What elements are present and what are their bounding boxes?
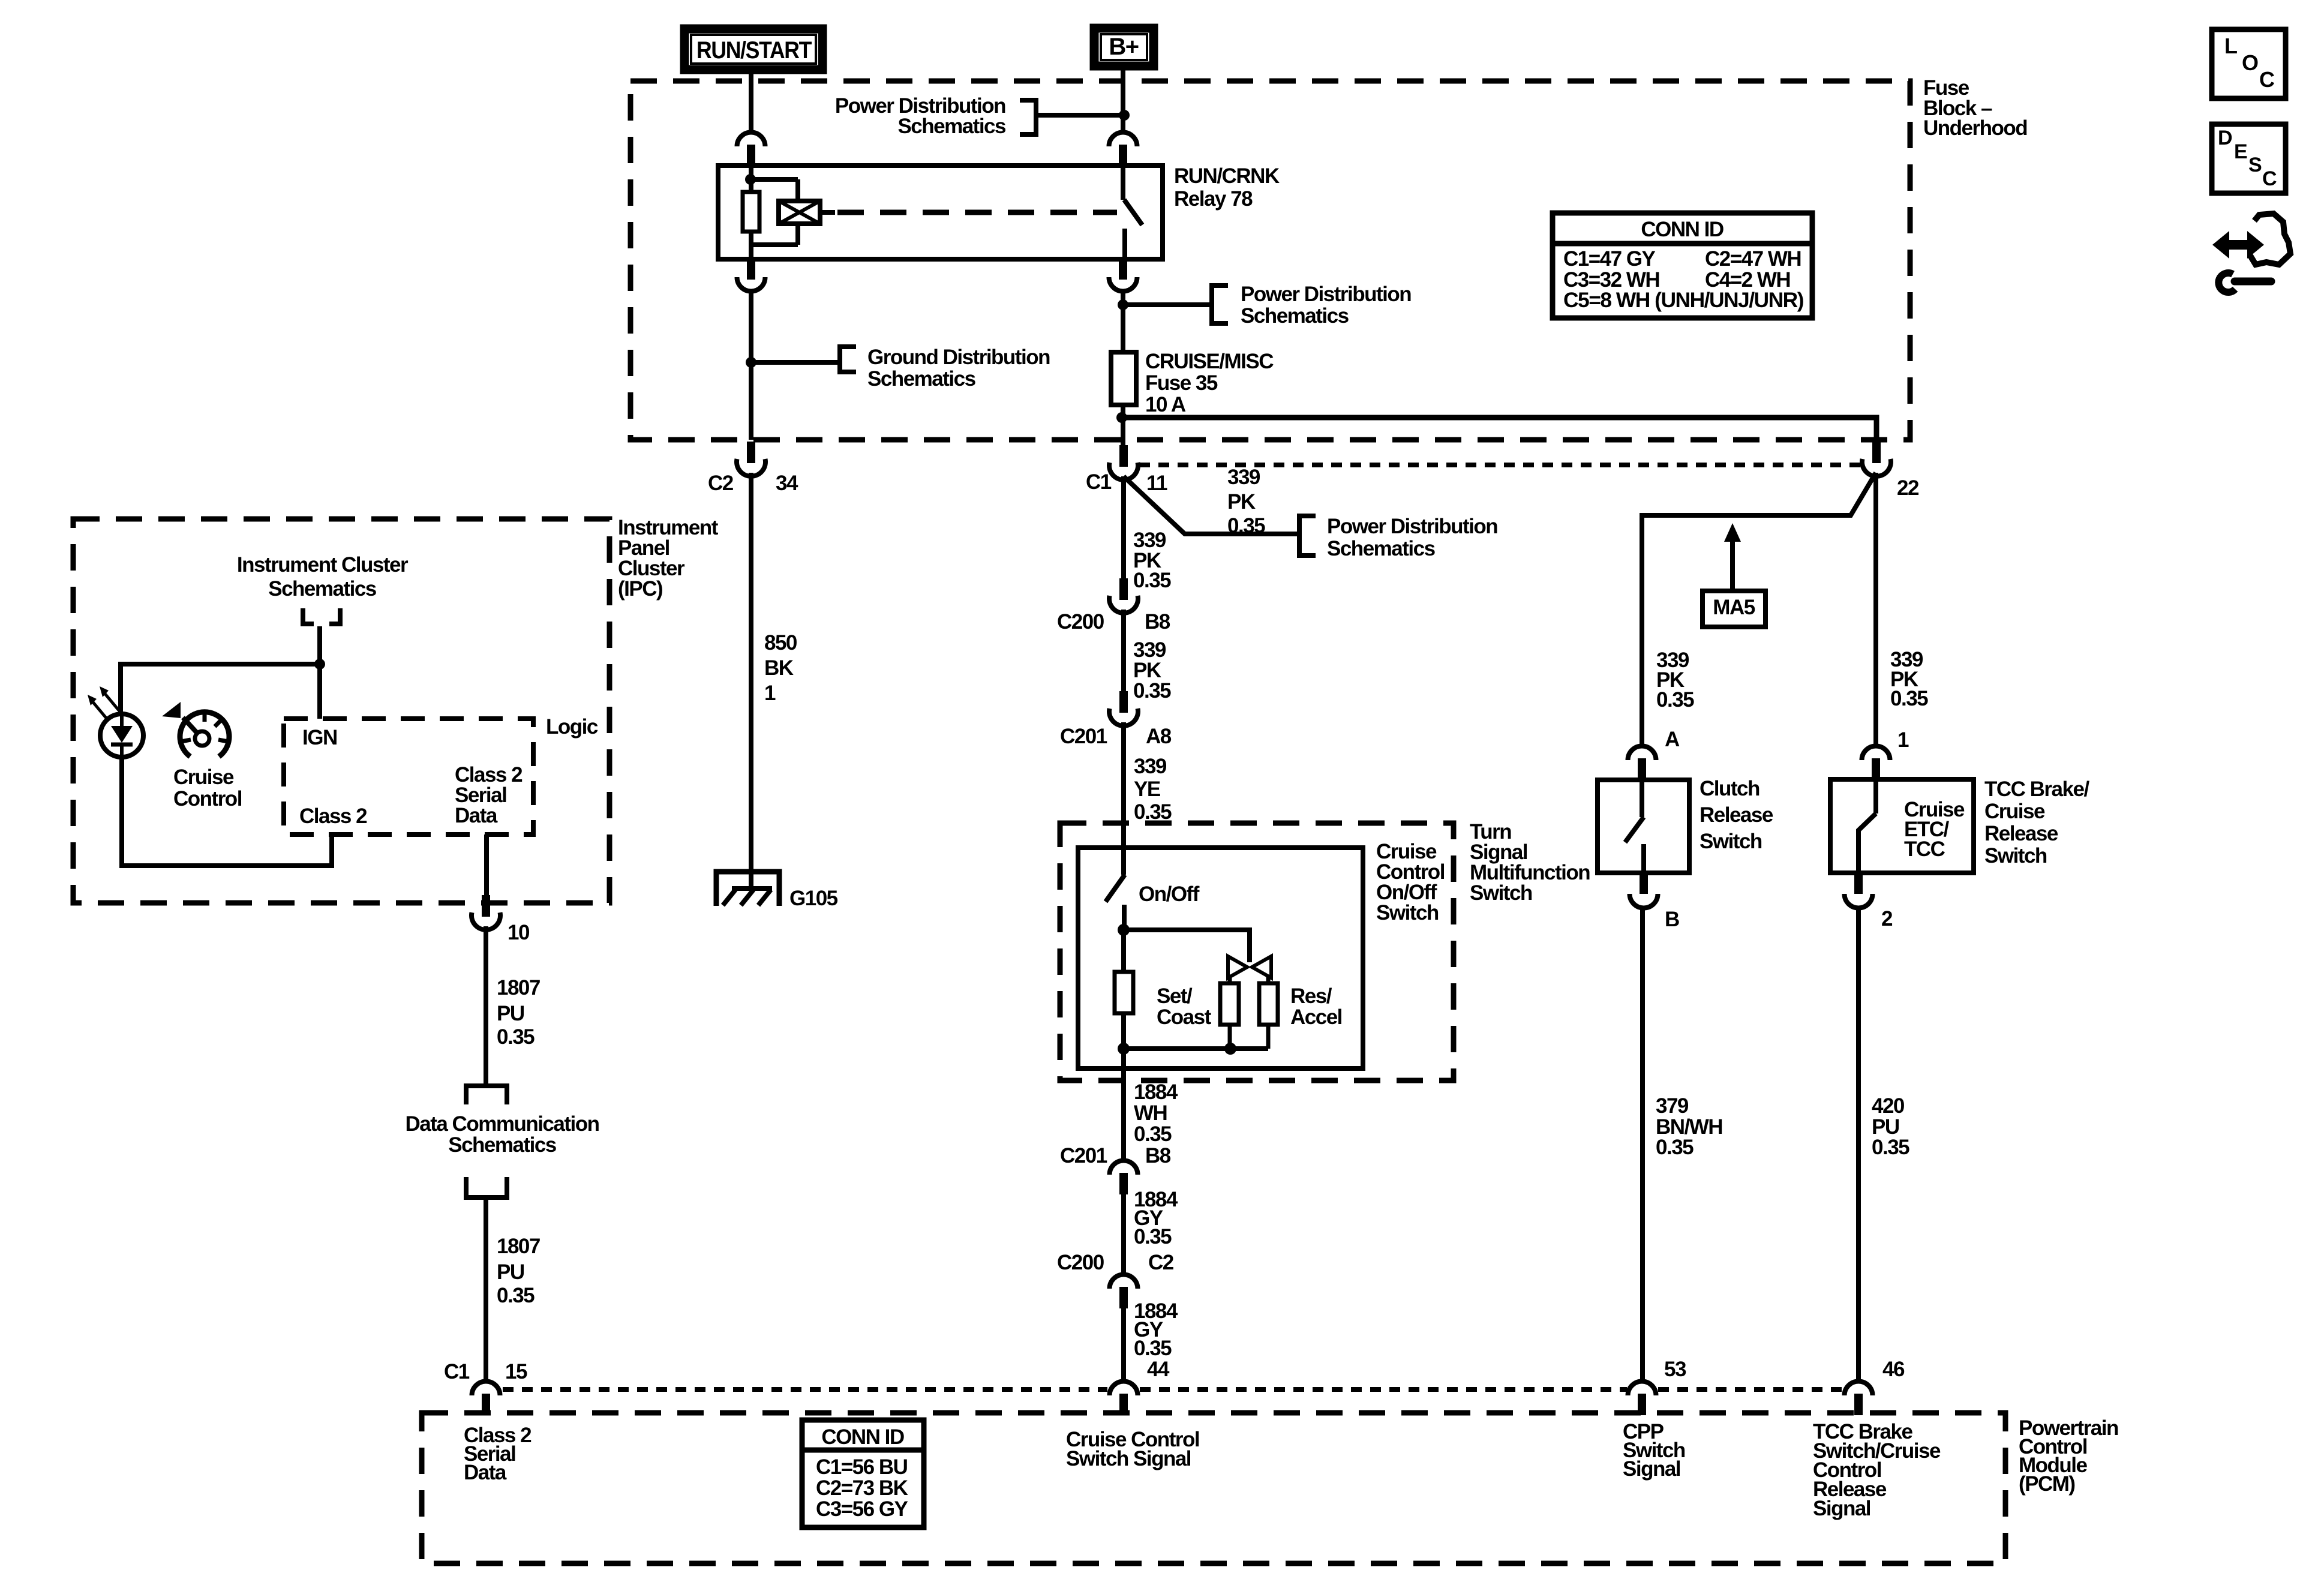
svg-text:RUN/CRNK: RUN/CRNK — [1174, 164, 1280, 188]
svg-text:(PCM): (PCM) — [2019, 1472, 2075, 1496]
label Turn Signal Multifunction Switch — [1470, 820, 1590, 905]
svg-text:44: 44 — [1147, 1358, 1170, 1381]
connector pin 46 — [1845, 1382, 1873, 1416]
label 10 — [508, 921, 530, 944]
label 44 — [1147, 1358, 1170, 1381]
ETC switch contacts — [1858, 779, 1876, 873]
label 1807 PU 0.35 (upper) — [497, 976, 540, 1049]
svg-text:10 A: 10 A — [1145, 393, 1186, 416]
svg-text:0.35: 0.35 — [497, 1284, 535, 1307]
connector etc pin 1 — [1862, 746, 1890, 780]
relay switch — [1123, 166, 1142, 259]
connector IPC pin 10 — [472, 895, 500, 930]
svg-text:D: D — [2218, 127, 2232, 149]
svg-text:Res/: Res/ — [1290, 984, 1332, 1008]
label A8 — [1146, 725, 1172, 748]
label 1807 PU 0.35 (lower) — [497, 1235, 540, 1307]
wire 1807 PU lower — [484, 1197, 488, 1382]
svg-text:850: 850 — [764, 631, 797, 655]
label 420 PU 0.35 — [1872, 1094, 1909, 1159]
svg-text:B8: B8 — [1145, 610, 1170, 634]
svg-text:CONN ID: CONN ID — [821, 1425, 904, 1449]
svg-text:Cruise: Cruise — [173, 766, 234, 789]
svg-text:(IPC): (IPC) — [618, 577, 662, 601]
label 1884 GY 0.35 (lower) — [1134, 1299, 1178, 1360]
label Ground Distribution Schematics — [867, 346, 1050, 391]
svg-text:PK: PK — [1227, 490, 1256, 514]
wire 339 PK C200 to C201 — [1121, 610, 1126, 692]
svg-text:S: S — [2248, 154, 2262, 176]
label Class 2 (port) — [299, 804, 367, 828]
svg-text:1807: 1807 — [497, 976, 540, 999]
svg-text:PU: PU — [497, 1002, 524, 1025]
relay coil box with X — [779, 201, 835, 224]
PCM dashed box — [422, 1413, 2005, 1563]
label TCC Brake/Cruise Release Switch — [1984, 778, 2089, 867]
junction + bracket power distribution (fuse) — [1118, 286, 1228, 323]
svg-text:Release: Release — [1700, 803, 1773, 827]
svg-text:TCC Brake/: TCC Brake/ — [1984, 778, 2089, 801]
connector below relay (left) — [737, 262, 765, 292]
label 11 — [1146, 472, 1167, 495]
svg-text:0.35: 0.35 — [1134, 800, 1172, 824]
label A — [1665, 728, 1680, 751]
label 53 — [1664, 1358, 1686, 1381]
svg-text:379: 379 — [1656, 1094, 1689, 1118]
wire fuse down to C1 — [1121, 418, 1125, 456]
svg-text:Switch: Switch — [1984, 844, 2047, 867]
wire jog to clutch column — [1642, 473, 1876, 747]
diode pair res/accel — [1228, 956, 1271, 985]
connector C201 A8 — [1109, 691, 1138, 726]
svg-text:B: B — [1665, 908, 1679, 931]
offpage bracket data communication (bottom) — [466, 1177, 507, 1197]
label Set/Coast — [1157, 984, 1212, 1029]
bracket ground distribution — [746, 347, 856, 372]
svg-text:Switch: Switch — [1470, 881, 1532, 905]
wire 339 PK C1 to C200 — [1121, 476, 1126, 580]
svg-text:CRUISE/MISC: CRUISE/MISC — [1145, 350, 1274, 373]
svg-text:0.35: 0.35 — [1872, 1136, 1909, 1159]
label Cruise ETC/TCC — [1904, 798, 1965, 861]
MA5 box — [1703, 591, 1765, 627]
label Powertrain Control Module (PCM) — [2019, 1416, 2118, 1496]
svg-text:C200: C200 — [1057, 1251, 1104, 1274]
offpage bracket data communication (top) — [466, 1086, 507, 1104]
svg-text:Schematics: Schematics — [867, 367, 976, 391]
label C2 (ipc) — [708, 472, 734, 495]
svg-text:0.35: 0.35 — [1133, 679, 1171, 703]
label 339 YE 0.35 — [1134, 755, 1172, 824]
label C200 (lower) — [1057, 1251, 1104, 1274]
label Fuse Block - Underhood — [1923, 76, 2027, 140]
svg-text:22: 22 — [1897, 476, 1919, 500]
dotted connector face C1 — [1139, 463, 1861, 467]
wire B+ feed — [1121, 66, 1125, 128]
label C2 — [1148, 1251, 1174, 1274]
svg-text:Signal: Signal — [1623, 1457, 1680, 1481]
label 379 BN/WH 0.35 — [1656, 1094, 1722, 1159]
label 15 — [505, 1360, 527, 1383]
connector pin 53 — [1628, 1382, 1656, 1416]
label Res/Accel — [1290, 984, 1342, 1029]
svg-text:0.35: 0.35 — [497, 1025, 535, 1049]
svg-text:C200: C200 — [1057, 610, 1104, 634]
ground G105 — [716, 872, 779, 906]
label 34 — [776, 472, 798, 495]
svg-text:C1=56 BU: C1=56 BU — [816, 1455, 908, 1479]
svg-text:B8: B8 — [1145, 1144, 1171, 1167]
svg-text:C2: C2 — [1148, 1251, 1174, 1274]
clutch release switch box — [1598, 780, 1689, 873]
connector C200 B8 — [1109, 578, 1138, 613]
wire 850 BK — [749, 473, 753, 888]
junction top of ladder — [1118, 924, 1130, 936]
svg-text:Schematics: Schematics — [268, 577, 377, 601]
svg-text:11: 11 — [1146, 472, 1167, 495]
svg-text:E: E — [2234, 140, 2247, 163]
svg-text:BK: BK — [764, 656, 794, 680]
instrument panel cluster dashed box — [73, 519, 609, 903]
label 339 PK 0.35 (branch) — [1227, 466, 1265, 538]
wire 1807 PU upper — [484, 926, 488, 1083]
label Clutch Release Switch — [1700, 777, 1773, 853]
svg-text:C3=56 GY: C3=56 GY — [816, 1497, 908, 1521]
connector clutch pin B — [1630, 874, 1658, 908]
label IGN — [302, 726, 337, 749]
svg-text:Switch: Switch — [1376, 901, 1439, 924]
MA5 arrow — [1724, 523, 1741, 591]
svg-text:C1=47 GY: C1=47 GY — [1563, 247, 1656, 271]
svg-text:Fuse 35: Fuse 35 — [1145, 371, 1218, 395]
svg-text:Instrument Cluster: Instrument Cluster — [237, 553, 409, 577]
connector C1 pin 15 — [472, 1382, 500, 1416]
label 1 — [1897, 728, 1909, 752]
svg-text:On/Off: On/Off — [1139, 882, 1200, 906]
switch On/Off — [1106, 848, 1125, 930]
svg-text:Cruise: Cruise — [1984, 800, 2045, 823]
label CRUISE/MISC Fuse 35 10 A — [1145, 350, 1274, 416]
label 339 PK 0.35 (C200-C201) — [1133, 638, 1171, 703]
svg-text:1884: 1884 — [1134, 1080, 1178, 1104]
svg-text:0.35: 0.35 — [1133, 569, 1171, 592]
fuse block underhood dashed outline — [630, 81, 1910, 440]
label Logic — [546, 715, 598, 739]
wire to relay switch — [1121, 162, 1125, 168]
wire relay to fuse — [1121, 290, 1125, 354]
svg-text:0.35: 0.35 — [1890, 687, 1928, 710]
svg-text:0.35: 0.35 — [1656, 1136, 1694, 1159]
label B — [1665, 908, 1679, 931]
label Instrument Cluster Schematics — [237, 553, 409, 601]
svg-text:Switch: Switch — [1700, 830, 1762, 853]
label C1 — [1086, 470, 1112, 494]
svg-text:C201: C201 — [1060, 725, 1107, 748]
resistor accel (right) — [1259, 983, 1278, 1049]
connector C1 pin 11 — [1109, 445, 1138, 480]
svg-text:RUN/START: RUN/START — [696, 37, 812, 64]
wire class 2 loop — [122, 756, 332, 866]
label Class 2 Serial Data (pcm) — [464, 1424, 532, 1484]
svg-text:Underhood: Underhood — [1923, 116, 2027, 140]
svg-text:Power Distribution: Power Distribution — [1241, 283, 1411, 306]
fuse CRUISE/MISC Fuse 35 — [1111, 352, 1136, 418]
bracket power distribution (branch) — [1299, 516, 1316, 556]
bracket instrument cluster schematics — [303, 608, 340, 624]
label 339 PK 0.35 (etc) — [1890, 648, 1928, 710]
svg-text:0.35: 0.35 — [1134, 1337, 1172, 1360]
svg-text:Clutch: Clutch — [1700, 777, 1759, 800]
bottom ladder wire — [1118, 1043, 1268, 1055]
relay coil circuit — [743, 166, 798, 259]
gauge speedometer icon — [180, 712, 229, 757]
conn id table (fuse block) — [1553, 213, 1812, 318]
svg-text:IGN: IGN — [302, 726, 337, 749]
label 2 — [1881, 907, 1893, 930]
label Cruise Control On/Off Switch — [1376, 840, 1445, 924]
svg-text:WH: WH — [1134, 1101, 1167, 1125]
label C200 — [1057, 610, 1104, 634]
bus wire fuse output to pin 22 — [1122, 418, 1876, 442]
svg-text:A: A — [1665, 728, 1680, 751]
svg-text:339: 339 — [1227, 466, 1260, 489]
svg-text:C2=47 WH: C2=47 WH — [1705, 247, 1801, 271]
svg-text:10: 10 — [508, 921, 530, 944]
dotted connector face PCM — [503, 1387, 1843, 1392]
svg-text:B+: B+ — [1109, 34, 1138, 60]
label 339 PK 0.35 (clutch) — [1656, 649, 1694, 712]
wire switch output — [1121, 1049, 1126, 1161]
wire 339 YE to switch — [1121, 722, 1126, 848]
resistor set/coast (main) — [1115, 930, 1133, 1049]
svg-text:Set/: Set/ — [1157, 984, 1193, 1008]
label Power Distribution Schematics (branch) — [1327, 515, 1497, 560]
label 850 BK 1 — [764, 631, 797, 705]
junction node B+ — [1119, 110, 1130, 121]
svg-text:Power Distribution: Power Distribution — [1327, 515, 1497, 538]
label Power Distribution Schematics (fuse) — [1241, 283, 1411, 328]
svg-text:15: 15 — [505, 1360, 527, 1383]
label C201 — [1060, 725, 1107, 748]
svg-text:TCC: TCC — [1904, 837, 1945, 861]
svg-text:Data Communication: Data Communication — [405, 1112, 599, 1136]
svg-text:Class 2: Class 2 — [299, 804, 367, 828]
label RUN/CRNK Relay 78 — [1174, 164, 1280, 211]
svg-text:Data: Data — [455, 804, 498, 827]
label 1884 GY 0.35 (upper) — [1134, 1188, 1178, 1248]
relay actuation dashed line — [837, 210, 1117, 215]
clutch switch contacts — [1625, 780, 1644, 873]
svg-text:0.35: 0.35 — [1134, 1225, 1172, 1248]
svg-text:C2: C2 — [708, 472, 734, 495]
label 46 — [1882, 1358, 1905, 1381]
label C1 (pcm) — [444, 1360, 470, 1383]
svg-text:0.35: 0.35 — [1134, 1122, 1172, 1146]
svg-text:1: 1 — [1897, 728, 1909, 752]
svg-text:Ground Distribution: Ground Distribution — [867, 346, 1050, 369]
arrow-wrench icon — [2212, 214, 2290, 292]
svg-text:A8: A8 — [1146, 725, 1172, 748]
power feed box RUN/START — [684, 29, 822, 70]
label Class 2 Serial Data (logic) — [455, 763, 523, 827]
connector into fuse block (B+) — [1109, 133, 1137, 167]
svg-text:46: 46 — [1882, 1358, 1905, 1381]
wire serial data — [484, 834, 489, 900]
branch wire to power distribution — [1124, 476, 1299, 534]
svg-text:Relay 78: Relay 78 — [1174, 187, 1253, 211]
DESC icon box — [2212, 124, 2286, 193]
label CPP Switch Signal — [1623, 1420, 1685, 1481]
wire to relay — [749, 162, 753, 168]
relay RUN/CRNK Relay 78 box — [718, 166, 1163, 259]
svg-text:Signal: Signal — [1813, 1497, 1870, 1520]
label G105 — [789, 887, 838, 910]
svg-text:C: C — [2262, 167, 2277, 190]
svg-text:PU: PU — [497, 1260, 524, 1284]
wire 379 BN/WH — [1640, 906, 1645, 1382]
connector etc pin 2 — [1845, 874, 1873, 908]
svg-text:C1: C1 — [444, 1360, 470, 1383]
label Data Communication Schematics — [405, 1112, 599, 1157]
resistor res (left) — [1220, 983, 1239, 1049]
svg-text:0.35: 0.35 — [1227, 514, 1265, 538]
connector below relay (right) — [1109, 262, 1137, 292]
svg-text:CONN ID: CONN ID — [1641, 218, 1724, 241]
wire B+ down — [1121, 115, 1125, 133]
label 1884 WH 0.35 — [1134, 1080, 1178, 1146]
cruise control on/off switch box — [1078, 848, 1363, 1068]
wire 420 PU — [1856, 906, 1861, 1382]
svg-text:339: 339 — [1134, 755, 1167, 778]
svg-text:Coast: Coast — [1157, 1005, 1212, 1029]
connector C200 C2 — [1110, 1275, 1138, 1309]
wire IGN feed — [314, 626, 325, 719]
svg-text:Schematics: Schematics — [448, 1133, 557, 1157]
svg-text:G105: G105 — [789, 887, 838, 910]
label TCC Brake Switch/Cruise Control Release Signal — [1813, 1420, 1941, 1520]
svg-text:Schematics: Schematics — [1241, 304, 1349, 328]
svg-text:C1: C1 — [1086, 470, 1112, 494]
power feed box B+ — [1094, 28, 1154, 66]
svg-text:C: C — [2259, 67, 2275, 92]
label Cruise Control Switch Signal — [1066, 1428, 1199, 1470]
svg-text:O: O — [2242, 50, 2258, 75]
wire down to ETC switch — [1873, 473, 1878, 747]
label Instrument Panel Cluster (IPC) — [618, 516, 719, 601]
bracket power distribution (top) — [1020, 100, 1124, 134]
svg-text:Control: Control — [173, 787, 242, 810]
svg-text:Switch Signal: Switch Signal — [1066, 1447, 1191, 1470]
label C201 (lower) — [1060, 1144, 1107, 1167]
connector into fuse block (RUN/START) — [737, 133, 765, 167]
wire 1884 GY upper — [1121, 1194, 1126, 1274]
svg-text:Accel: Accel — [1290, 1005, 1342, 1029]
label Cruise Control (icon) — [173, 766, 242, 810]
svg-text:Data: Data — [464, 1461, 507, 1484]
svg-text:0.35: 0.35 — [1656, 688, 1694, 712]
conn id table (pcm) — [802, 1420, 924, 1527]
LED cruise indicator — [100, 714, 143, 757]
svg-text:Schematics: Schematics — [1327, 537, 1436, 560]
wire relay to ground-dist junction — [749, 290, 753, 440]
connector pin 44 — [1110, 1382, 1138, 1416]
connector C2 pin 34 — [737, 442, 765, 476]
label 339 PK 0.35 (C1-C200) — [1133, 529, 1171, 592]
LED arrows — [88, 686, 119, 719]
svg-text:MA5: MA5 — [1713, 596, 1755, 619]
svg-text:L: L — [2224, 34, 2237, 58]
label Power Distribution Schematics (top) — [835, 94, 1006, 138]
svg-text:C2=73 BK: C2=73 BK — [816, 1476, 908, 1500]
cruise ETC/TCC switch box — [1830, 779, 1974, 873]
svg-text:1: 1 — [764, 682, 776, 705]
wire to res/accel branch — [1124, 930, 1250, 962]
connector pin 22 — [1862, 442, 1891, 476]
gauge icon arrow — [162, 702, 181, 718]
svg-text:Release: Release — [1984, 822, 2058, 845]
svg-text:34: 34 — [776, 472, 798, 495]
svg-text:YE: YE — [1134, 778, 1160, 801]
connector C201 B8 — [1110, 1160, 1138, 1194]
label B8 (lower) — [1145, 1144, 1171, 1167]
svg-text:C5=8 WH (UNH/UNJ/UNR): C5=8 WH (UNH/UNJ/UNR) — [1563, 289, 1803, 312]
label On/Off — [1139, 882, 1200, 906]
LOC icon box — [2212, 29, 2286, 98]
svg-text:420: 420 — [1872, 1094, 1905, 1118]
connector clutch pin A — [1628, 746, 1656, 780]
wire 1884 GY lower — [1121, 1305, 1126, 1382]
svg-text:1807: 1807 — [497, 1235, 540, 1258]
wire RUN/START feed — [749, 70, 753, 133]
wire to cruise lamp — [121, 664, 320, 715]
label 22 — [1897, 476, 1919, 500]
svg-text:53: 53 — [1664, 1358, 1686, 1381]
svg-text:Logic: Logic — [546, 715, 598, 739]
label B8 — [1145, 610, 1170, 634]
logic dashed box — [284, 719, 533, 834]
svg-text:Schematics: Schematics — [897, 115, 1006, 138]
svg-text:2: 2 — [1881, 907, 1893, 930]
turn signal multifunction switch dashed box — [1060, 823, 1454, 1080]
svg-text:C201: C201 — [1060, 1144, 1107, 1167]
junction fuse output — [1116, 412, 1127, 423]
